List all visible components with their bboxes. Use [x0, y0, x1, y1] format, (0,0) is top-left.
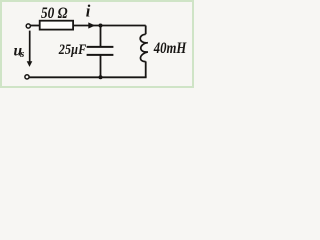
svg-text:50 Ω: 50 Ω: [41, 5, 68, 22]
wire: bottom wire: [30, 76, 147, 78]
wire: capacitor lower lead: [100, 55, 102, 77]
wire: capacitor upper lead: [100, 26, 102, 47]
background: [0, 0, 194, 88]
current arrow i (arrowhead on wire): [88, 22, 95, 28]
svg-text:i: i: [86, 2, 91, 21]
wire: top wire from source terminal to resistor: [30, 25, 39, 27]
terminal node (top, open circle): [26, 24, 30, 28]
capacitor C (25uF) plates: [87, 46, 114, 48]
wire: resistor to top-right corner: [73, 25, 146, 27]
svg-text:40mH: 40mH: [153, 40, 187, 57]
wire: right branch vertical (top corner down to inductor): [145, 26, 147, 35]
svg-text:25µF: 25µF: [58, 42, 86, 58]
source us reference arrow (pointing down): [29, 31, 31, 62]
node: junction bottom: [99, 75, 103, 79]
resistor R (50 ohm): [40, 21, 73, 30]
svg-text:s: s: [19, 48, 24, 60]
inductor L (40mH) coil: [140, 34, 148, 61]
terminal node (bottom, open circle): [25, 75, 29, 79]
border frame (decorative): [1, 1, 193, 87]
node: junction top (capacitor tap): [99, 24, 103, 28]
wire: inductor to bottom-right corner: [145, 61, 147, 77]
